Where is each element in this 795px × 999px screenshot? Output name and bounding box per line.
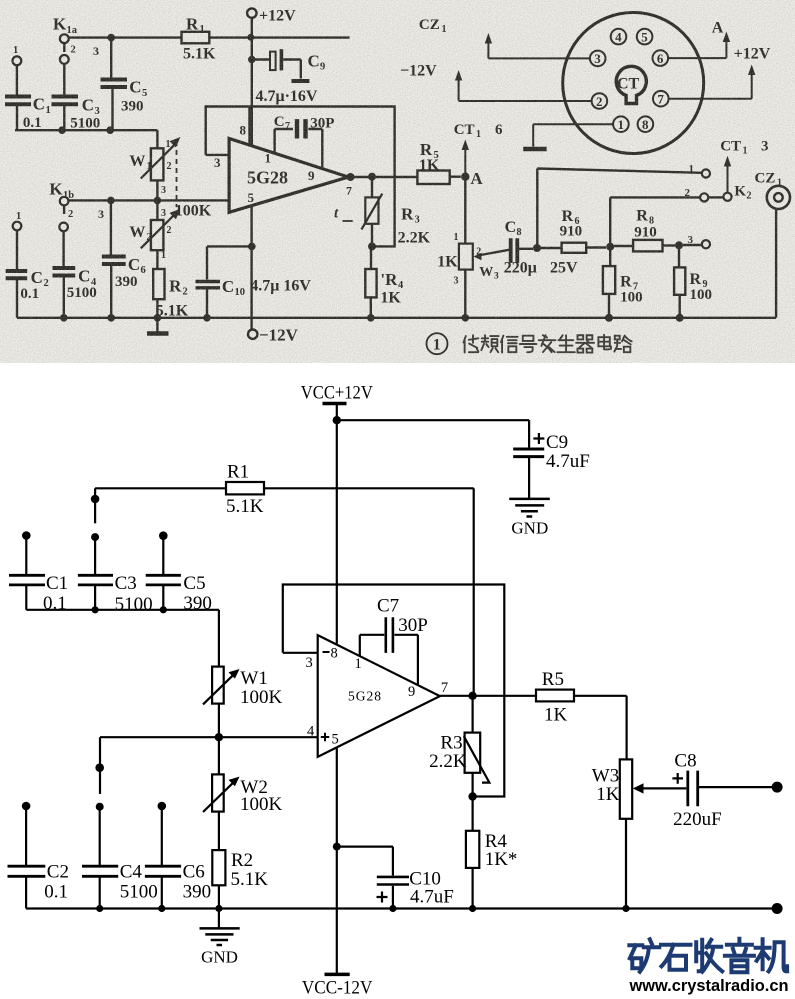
- node W1 bottom on bus: [154, 197, 162, 205]
- switch K1a pole circle: [60, 34, 69, 43]
- svg-text:C8: C8: [674, 751, 696, 772]
- node C10 tap scan: [248, 243, 256, 251]
- capacitor C8: [672, 771, 697, 807]
- gang dashed line W1-W2: [176, 141, 178, 207]
- svg-text:7: 7: [441, 680, 448, 696]
- wire inverting input scan: [206, 154, 229, 156]
- labels of scanned schematic: [13, 8, 782, 345]
- ground bar left: [147, 318, 169, 334]
- node C4-bus: [96, 905, 103, 912]
- svg-text:9: 9: [408, 684, 415, 700]
- thermistor R3 scan: [362, 177, 383, 247]
- wire pin7 to +12V arrow: [669, 65, 756, 99]
- switch K1a throw node (C3): [91, 533, 99, 541]
- wire pin6 to A arrow: [668, 32, 730, 59]
- svg-text:C3: C3: [115, 573, 137, 594]
- node W3 bus scan: [462, 314, 470, 322]
- svg-text:0.1: 0.1: [44, 882, 68, 903]
- capacitor C5: [146, 531, 181, 609]
- char 频: [481, 335, 498, 352]
- node R3 tap scan: [368, 173, 376, 181]
- logo char 机: [756, 939, 788, 971]
- svg-text:W1: W1: [240, 668, 267, 689]
- resistor R5: [536, 690, 574, 702]
- socket pin 1: [613, 116, 629, 132]
- logo char 矿: [629, 939, 659, 972]
- wire cap bank bottom bus to W1: [15, 130, 157, 148]
- svg-text:C6: C6: [183, 862, 205, 883]
- logo char 石: [661, 945, 691, 970]
- socket pin 8: [638, 116, 654, 132]
- ground GND1: [509, 499, 550, 517]
- switch K1b throw circle: [59, 223, 68, 232]
- node C10 bus scan: [203, 314, 211, 322]
- node R9 bus: [676, 314, 684, 322]
- svg-text:R1: R1: [227, 462, 249, 483]
- wire R2 to bus: [218, 885, 220, 908]
- terminal output lower: [772, 903, 783, 914]
- svg-text:220uF: 220uF: [673, 809, 722, 830]
- node C10-bus: [389, 905, 396, 912]
- svg-text:5100: 5100: [115, 594, 153, 615]
- wire CZ1 to bus: [775, 210, 777, 318]
- svg-text:5100: 5100: [120, 882, 158, 903]
- wire VCC vertical lower segment to VCC-12V: [336, 748, 338, 975]
- node R4 bus scan: [367, 314, 375, 322]
- wire to K2 contact1: [537, 169, 701, 249]
- wire W2 to R2: [218, 812, 220, 851]
- wire inverting input: [283, 652, 318, 654]
- potentiometer W3 scan: [459, 177, 509, 318]
- char 发: [539, 335, 556, 352]
- op-amp U1 scan: [229, 139, 348, 213]
- node R8-R9 junction: [675, 241, 683, 249]
- capacitor C2 scan: [6, 230, 28, 317]
- node C10 tap: [333, 843, 341, 851]
- resistor R1 scan: [182, 32, 210, 44]
- node output junction: [468, 692, 476, 700]
- wire op-amp power to -12V: [250, 206, 252, 330]
- svg-text:3: 3: [306, 655, 313, 671]
- switch K1b contact 1 circle: [13, 222, 22, 231]
- wire feedback loop pin3 to R3/R4: [283, 585, 505, 797]
- wire W1 to K1b bus: [156, 180, 158, 220]
- wire to K2 contact3: [683, 244, 702, 246]
- wire top RC bus: [69, 36, 350, 38]
- svg-text:2.2K: 2.2K: [429, 751, 467, 772]
- switch K2 blade: [708, 196, 723, 198]
- capacitor C3: [78, 539, 113, 610]
- node R3-R4 junction scan: [368, 242, 376, 250]
- wire R1 right feedback down to output: [473, 488, 475, 696]
- terminal output upper: [772, 782, 783, 793]
- potentiometer W2 scan: [141, 209, 181, 251]
- svg-text:GND: GND: [511, 519, 548, 538]
- node R4-bus: [469, 905, 476, 912]
- wire bus down to W1: [218, 610, 220, 667]
- svg-text:C4: C4: [120, 862, 143, 883]
- capacitor C6: [145, 802, 181, 909]
- wire feedback loop scan: [206, 107, 395, 247]
- switch K1a pole node: [91, 495, 100, 504]
- node C5-bus: [160, 606, 167, 613]
- svg-text:C5: C5: [183, 573, 205, 594]
- labels of clean schematic: [43, 382, 722, 998]
- switch K1b blade: [63, 206, 65, 214]
- connector CZ1 right: [767, 186, 790, 209]
- label t mark: [343, 220, 353, 222]
- wire VCC vertical upper segment: [336, 420, 338, 644]
- potentiometer W1 scan: [141, 137, 181, 180]
- svg-text:1K: 1K: [596, 784, 620, 805]
- node +12V bus crossing: [247, 34, 254, 41]
- svg-text:4.7uF: 4.7uF: [546, 451, 590, 472]
- switch K2 wiper circle: [723, 193, 731, 201]
- svg-text:R5: R5: [542, 669, 564, 690]
- capacitor C10: [337, 847, 409, 909]
- switch K2 contact 3: [702, 240, 710, 248]
- svg-text:www.crystalradio.cn: www.crystalradio.cn: [629, 976, 789, 995]
- capacitor C3 scan: [52, 64, 79, 130]
- wire K1b bus to op-amp pin4: [68, 199, 229, 201]
- node W1-W2 / pin4: [215, 733, 223, 741]
- terminal -12V circle: [248, 330, 257, 339]
- svg-text:30P: 30P: [398, 615, 428, 636]
- node R7 bus: [605, 314, 613, 322]
- resistor R5 scan: [417, 171, 460, 185]
- wire R5 to W3: [574, 696, 627, 760]
- svg-text:1: 1: [355, 656, 362, 672]
- capacitor C6 scan: [102, 200, 126, 317]
- svg-text:4: 4: [307, 724, 315, 740]
- svg-text:390: 390: [183, 882, 212, 903]
- svg-text:4.7uF: 4.7uF: [410, 887, 454, 908]
- switch K1a blade: [63, 43, 65, 52]
- ground GND2: [200, 909, 240, 946]
- tube socket CT1 outline: [563, 13, 704, 154]
- node R3-R4 junction: [468, 792, 476, 800]
- pin symbol marks: [321, 652, 330, 741]
- svg-text:C7: C7: [377, 596, 399, 617]
- caption chinese text: 低频信号发生器电路: [464, 335, 632, 353]
- node C5 bottom: [106, 126, 114, 134]
- char 信: [501, 336, 518, 353]
- resistor R4 scan: [365, 246, 376, 317]
- svg-text:5G28: 5G28: [348, 689, 382, 704]
- caption number circle: [427, 333, 448, 354]
- socket pin 2: [592, 93, 608, 109]
- capacitor C10 scan: [196, 246, 252, 317]
- resistor R6 scan: [537, 243, 606, 253]
- potentiometer W2: [203, 774, 240, 812]
- svg-text:1K: 1K: [544, 705, 568, 726]
- resistor R2 scan: [153, 269, 164, 299]
- node W3-bus: [622, 905, 629, 912]
- svg-text:8: 8: [331, 646, 338, 662]
- wire C9 bottom lead: [528, 458, 530, 499]
- node C6 col bus: [107, 314, 115, 322]
- switch K1a throw circle: [60, 55, 69, 64]
- wire op-amp output: [440, 695, 536, 697]
- resistor R7 scan: [603, 247, 615, 318]
- svg-text:C9: C9: [546, 432, 568, 453]
- svg-text:1K*: 1K*: [485, 849, 518, 870]
- wire output row scan: [348, 176, 417, 178]
- wire K1b drop: [99, 737, 101, 794]
- thermistor R3: [464, 733, 490, 783]
- node C9 tap: [248, 56, 256, 64]
- VCC-12V supply terminal: [325, 973, 350, 977]
- switch K1a contact 1 circle: [13, 56, 22, 65]
- node R6-R7-R8 junction: [606, 243, 614, 251]
- terminal +12V circle: [247, 8, 256, 17]
- wire to K2 contact2: [610, 197, 700, 246]
- wire noninverting input row: [100, 736, 318, 738]
- resistor R9 scan: [674, 245, 685, 317]
- char 低: [464, 335, 479, 352]
- logo char 音: [725, 939, 754, 973]
- wire pin2 to -12V arrow: [455, 70, 592, 101]
- potentiometer W1: [203, 667, 240, 705]
- capacitor C9 scan: [252, 49, 310, 81]
- socket pin numbers: [594, 29, 664, 132]
- socket pin 4: [611, 29, 627, 45]
- char 生: [557, 335, 574, 352]
- wire R3 to R4: [472, 773, 474, 831]
- resistor R4: [466, 831, 479, 868]
- scan grain overlay: [0, 0, 795, 363]
- resistor R8 scan: [614, 240, 675, 252]
- capacitor C1 scan: [5, 65, 31, 130]
- node R2 bus: [154, 314, 162, 322]
- wire +12V vertical: [251, 18, 253, 146]
- svg-text:100K: 100K: [240, 794, 283, 815]
- node C5 tap: [107, 34, 115, 42]
- svg-text:VCC+12V: VCC+12V: [301, 382, 373, 403]
- node C8-R6 junction: [533, 244, 541, 252]
- svg-text:390: 390: [183, 593, 212, 614]
- wire top cap bus: [26, 609, 219, 611]
- resistor R1: [226, 482, 264, 494]
- watermark logo: 矿石收音机: [629, 939, 787, 973]
- switch K1b throw node (C4): [96, 803, 104, 811]
- node K1b col bus: [60, 314, 68, 322]
- wire R4 to bus: [472, 868, 474, 909]
- socket pin 5: [637, 29, 653, 45]
- switch K2 contact 1: [702, 169, 710, 177]
- svg-text:5.1K: 5.1K: [226, 496, 264, 517]
- op-amp U1 5G28: [318, 635, 440, 757]
- scan paper background: [0, 0, 795, 363]
- wire R3 top lead: [472, 696, 474, 733]
- node C6 tap: [107, 197, 115, 205]
- switch K1b pole circle: [60, 197, 69, 206]
- wire VCC to C9: [337, 419, 529, 421]
- wire bottom ground bus scan: [17, 317, 776, 319]
- wire R1 row: [95, 487, 474, 489]
- svg-text:5.1K: 5.1K: [231, 869, 269, 890]
- svg-text:R2: R2: [231, 850, 253, 871]
- wire bottom ground bus: [26, 907, 777, 909]
- char 号: [520, 336, 537, 353]
- capacitor C7 scan: [275, 119, 323, 169]
- char 器: [576, 335, 594, 352]
- wire W2 to R2: [156, 250, 158, 269]
- switch K2 contact 2: [700, 193, 708, 201]
- pin minus sign (pin 8): [323, 651, 330, 653]
- socket pin 6: [653, 50, 669, 66]
- capacitor C4 scan: [53, 231, 76, 317]
- arrow to CT1 pin6: [462, 140, 469, 177]
- VCC+12V supply terminal: [323, 404, 347, 421]
- arrow to CT1 pin3: [724, 156, 731, 193]
- wire W3 to bus: [625, 819, 627, 909]
- pin plus sign (pin 5): [321, 733, 329, 741]
- capacitor C2: [8, 802, 46, 909]
- wire C8 to output terminal: [698, 786, 777, 788]
- socket key center: [616, 66, 646, 103]
- resistor R2: [212, 850, 225, 885]
- svg-text:C1: C1: [46, 573, 68, 594]
- switch K1b pole node: [95, 763, 104, 772]
- node C6-bus: [158, 905, 165, 912]
- svg-text:GND: GND: [201, 948, 238, 967]
- capacitor C9: [513, 433, 544, 457]
- wire pin1 to chassis ground: [523, 124, 613, 149]
- svg-text:5: 5: [332, 732, 339, 748]
- svg-text:C2: C2: [47, 862, 69, 883]
- socket pin 7: [653, 91, 669, 107]
- capacitor C8 scan: [511, 238, 533, 263]
- node A: [461, 173, 469, 181]
- wire C9 top lead: [528, 420, 530, 447]
- node C3 bottom: [58, 126, 66, 134]
- svg-text:100K: 100K: [240, 687, 283, 708]
- wire R2 to bus: [156, 299, 158, 318]
- capacitor C1: [9, 531, 45, 610]
- node VCC junction: [333, 416, 341, 424]
- wire R1 left drop: [94, 488, 96, 523]
- svg-text:VCC-12V: VCC-12V: [302, 978, 373, 999]
- capacitor C4: [82, 809, 118, 909]
- node R2-bus: [215, 905, 222, 912]
- wire W1 to pin4 row: [218, 704, 220, 775]
- capacitor C7: [360, 617, 418, 685]
- pin8 stub: [248, 107, 250, 146]
- node C3-bus: [92, 606, 99, 613]
- node output scan: [347, 173, 355, 181]
- socket pin 3: [590, 51, 606, 67]
- char 路: [614, 336, 631, 353]
- wire pin3 to CZ1 arrow: [485, 33, 590, 58]
- char 电: [598, 335, 611, 350]
- capacitor C5 scan: [101, 38, 128, 131]
- svg-text:0.1: 0.1: [43, 593, 67, 614]
- potentiometer W3: [620, 759, 687, 818]
- logo char 收: [696, 940, 722, 972]
